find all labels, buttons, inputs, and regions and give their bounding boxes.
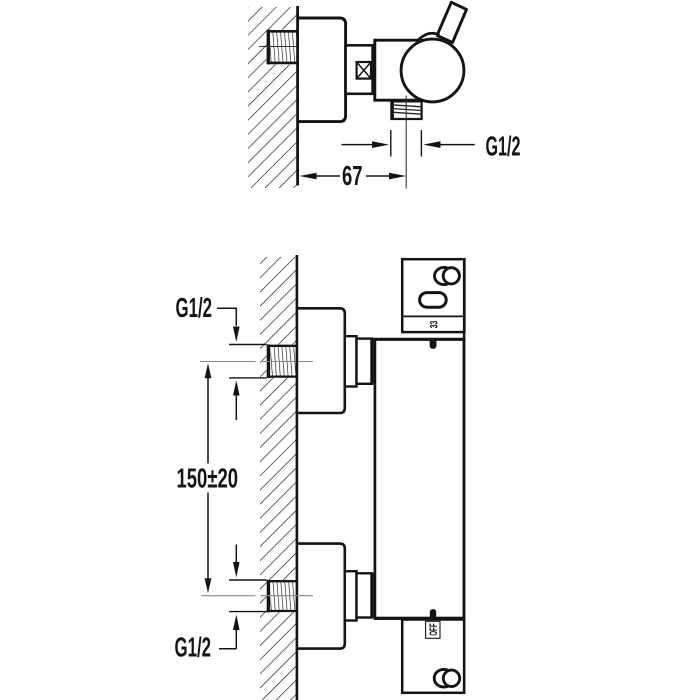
bottom wall bracket bbox=[402, 620, 464, 693]
X-square seal bbox=[357, 62, 371, 79]
bottom inlet ext line lower bbox=[229, 611, 267, 613]
OFF label (rotated) bbox=[428, 623, 440, 636]
wall line (front view) bbox=[296, 255, 299, 700]
bottom inlet left edge bbox=[267, 580, 270, 613]
bottom step 1 bbox=[345, 571, 357, 620]
bottom inlet ext line upper bbox=[229, 579, 267, 581]
bottom step 2 bbox=[357, 573, 372, 617]
OFF box bbox=[426, 621, 440, 638]
G1/2 dim line right part bbox=[441, 144, 475, 146]
top step 2 bbox=[357, 339, 372, 384]
inlet nipple threads bbox=[270, 33, 297, 63]
inlet nipple top edge bbox=[267, 30, 299, 33]
X-square diagonals bbox=[357, 62, 371, 79]
top inlet thread (front view) bbox=[267, 345, 297, 378]
svg-text:G1/2: G1/2 bbox=[486, 131, 521, 162]
G1/2 up arrow line bbox=[235, 396, 237, 421]
G1/2 right arrow bbox=[423, 141, 440, 148]
top step 1 bbox=[345, 336, 357, 386]
67 dim left arrow bbox=[299, 173, 316, 180]
cap arc bbox=[419, 33, 440, 39]
bottom G1/2 up arrow bbox=[233, 615, 240, 631]
150 dim bottom arrow bbox=[205, 578, 212, 593]
150 dim top arrow bbox=[205, 363, 212, 378]
top temperature pin bbox=[430, 340, 437, 349]
outlet left edge thick bbox=[391, 101, 394, 120]
bottom G1/2 leader bbox=[219, 648, 236, 650]
G1/2 dim line left part (side view) bbox=[342, 144, 373, 146]
bottom inlet centerline bbox=[201, 595, 313, 597]
extension tick right bbox=[420, 130, 422, 157]
150 dim line upper bbox=[207, 378, 209, 464]
bottom bracket left ring bbox=[434, 669, 453, 687]
outlet thread lines bbox=[392, 105, 422, 114]
knob circle bbox=[401, 39, 464, 102]
wall hatch (front view) bbox=[260, 257, 296, 700]
inlet nipple (side view) white body bbox=[267, 30, 297, 65]
bottom pin bbox=[430, 609, 436, 618]
bottom bracket right ring bbox=[443, 670, 459, 686]
67 dim line left bbox=[317, 175, 340, 177]
bottom escutcheon block (front view) bbox=[298, 544, 345, 649]
svg-text:67: 67 bbox=[342, 160, 363, 191]
bracket inner line bbox=[401, 315, 465, 317]
bar right edge continuous bbox=[463, 258, 465, 694]
inlet nipple left edge bbox=[267, 30, 270, 65]
top escutcheon block (front view) bbox=[298, 308, 345, 413]
bracket screw right ring bbox=[443, 268, 459, 284]
G1/2 up arrow bbox=[233, 381, 240, 396]
wall line (side view) bbox=[296, 6, 299, 186]
top wall bracket bbox=[402, 259, 464, 332]
svg-text:150±20: 150±20 bbox=[177, 463, 239, 494]
top inlet centerline bbox=[200, 361, 313, 363]
150 dim line lower bbox=[207, 493, 209, 579]
top inlet top edge bbox=[267, 345, 297, 347]
outlet fitting bbox=[391, 101, 421, 119]
bottom G1/2 up arrow line bbox=[235, 630, 237, 649]
bottom step 2 thick right edge bbox=[370, 573, 373, 618]
extension tick left bbox=[390, 130, 392, 157]
bottom G1/2 down arrow line bbox=[235, 545, 237, 563]
svg-text:G1/2: G1/2 bbox=[176, 292, 213, 323]
33 label (rotated) bbox=[428, 321, 440, 329]
valve body (side view) bbox=[375, 40, 423, 100]
bracket screw left ring bbox=[435, 267, 454, 284]
67 dim line right bbox=[366, 175, 389, 177]
top step 2 thick right edge bbox=[370, 338, 373, 384]
svg-text:OFF: OFF bbox=[428, 623, 440, 636]
shower column bar bbox=[375, 339, 464, 618]
bracket pill slot bbox=[420, 293, 447, 308]
escutcheon body (side view) bbox=[297, 18, 345, 122]
outlet centerline bbox=[405, 96, 407, 189]
bottom inlet thread (front view) bbox=[267, 580, 297, 612]
bar bottom edge redraw bbox=[374, 617, 464, 620]
svg-text:G1/2: G1/2 bbox=[175, 632, 212, 663]
top inlet left edge bbox=[267, 344, 270, 378]
G1/2 leader bbox=[217, 308, 236, 326]
bar bottom edge thick bbox=[374, 617, 464, 620]
top inlet bottom edge bbox=[267, 375, 297, 377]
bottom inlet bottom edge bbox=[267, 610, 297, 612]
bottom inlet top edge bbox=[267, 580, 297, 582]
G1/2 down arrow bbox=[233, 327, 240, 343]
bottom G1/2 down arrow bbox=[233, 562, 240, 578]
svg-text:33: 33 bbox=[428, 321, 440, 329]
G1/2 left arrow bbox=[372, 141, 389, 148]
wall hatch (side view) bbox=[248, 7, 297, 188]
inlet nipple bottom edge bbox=[267, 62, 299, 65]
bar top edge thick bbox=[374, 338, 466, 341]
nipple centerline bbox=[259, 46, 313, 48]
mid connector block bbox=[346, 45, 373, 94]
handle lever bbox=[437, 2, 467, 42]
top inlet ext line upper bbox=[229, 344, 267, 346]
67 right arrow bbox=[389, 173, 406, 180]
top inlet ext line lower bbox=[229, 377, 267, 379]
